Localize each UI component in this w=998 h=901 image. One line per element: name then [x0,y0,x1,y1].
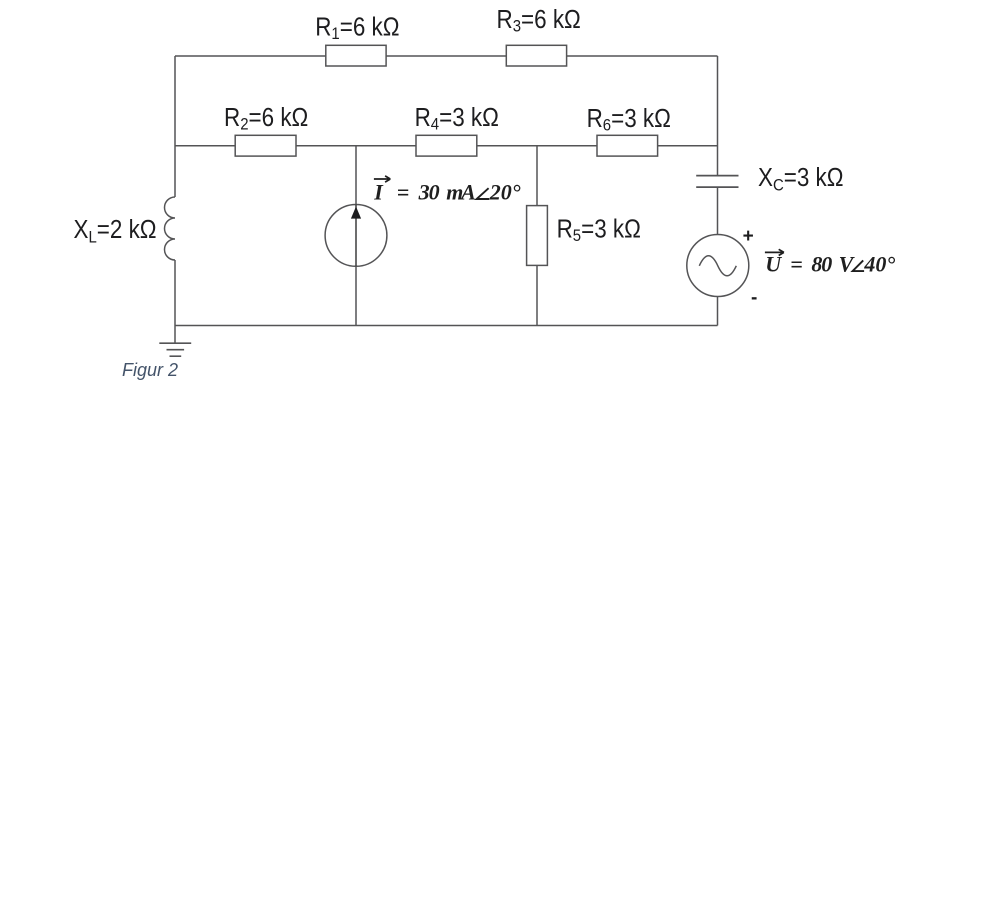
svg-text:R5=3 kΩ: R5=3 kΩ [557,215,641,245]
wire: voltage source to bottom rail [717,297,719,326]
svg-text:=: = [397,179,410,204]
wire: R5 branch lower segment [536,263,538,326]
voltage source U circle [687,235,749,297]
wire: middle horizontal rail [175,145,718,147]
svg-text:R1=6 kΩ: R1=6 kΩ [315,13,399,43]
ground bar 2 [167,349,185,351]
svg-text:R2=6 kΩ: R2=6 kΩ [224,104,308,134]
capacitor XC bottom plate [696,186,738,188]
svg-text:40°: 40° [863,251,895,276]
resistor R6 [597,135,658,156]
svg-text:=: = [790,251,803,276]
current source U1 circle [325,205,387,267]
wire: current source branch [355,146,357,326]
svg-text:XL=2 kΩ: XL=2 kΩ [74,216,157,247]
capacitor XC top plate [696,175,738,177]
resistor R5 (vertical) [527,206,548,266]
svg-text:-: - [751,288,757,309]
resistor R4 [416,135,477,156]
svg-text:mA: mA [446,179,475,204]
svg-text:20°: 20° [489,179,521,204]
wire: R5 branch upper segment [536,146,538,208]
vector arrow over U [765,249,784,255]
svg-text:R3=6 kΩ: R3=6 kΩ [497,6,581,36]
vector arrow over I [374,176,390,182]
svg-text:R6=3 kΩ: R6=3 kΩ [587,105,671,135]
svg-text:R4=3 kΩ: R4=3 kΩ [415,104,499,134]
inductor XL (3 left-bulging arcs) [165,197,176,260]
svg-text:Figur 2: Figur 2 [122,360,178,380]
svg-text:+: + [743,226,754,247]
ground bar 3 [170,355,182,357]
ground stem [174,326,176,344]
voltage source sine wave [699,256,736,276]
wire: bottom rail [175,325,718,327]
wire: capacitor to voltage source [717,188,719,236]
svg-text:30: 30 [418,179,440,204]
wire: top rail from left corner to right corner [175,55,718,57]
angle symbol of 20deg [477,188,490,199]
wire: left vertical from inductor to bottom rail [174,260,176,326]
current source arrow shaft [355,205,357,267]
svg-text:I: I [373,179,384,204]
svg-text:V: V [839,251,856,276]
svg-text:80: 80 [811,251,832,276]
resistor R3 [506,45,566,66]
wire: right vertical from top rail to capacitor [717,56,719,175]
angle symbol of 40deg [853,260,865,271]
resistor R1 [326,45,386,66]
resistor R2 [235,135,296,156]
svg-text:XC=3 kΩ: XC=3 kΩ [758,164,844,195]
current source arrowhead [351,207,361,219]
ground bar 1 [159,342,191,344]
wire: left vertical from top rail to inductor [174,56,176,197]
